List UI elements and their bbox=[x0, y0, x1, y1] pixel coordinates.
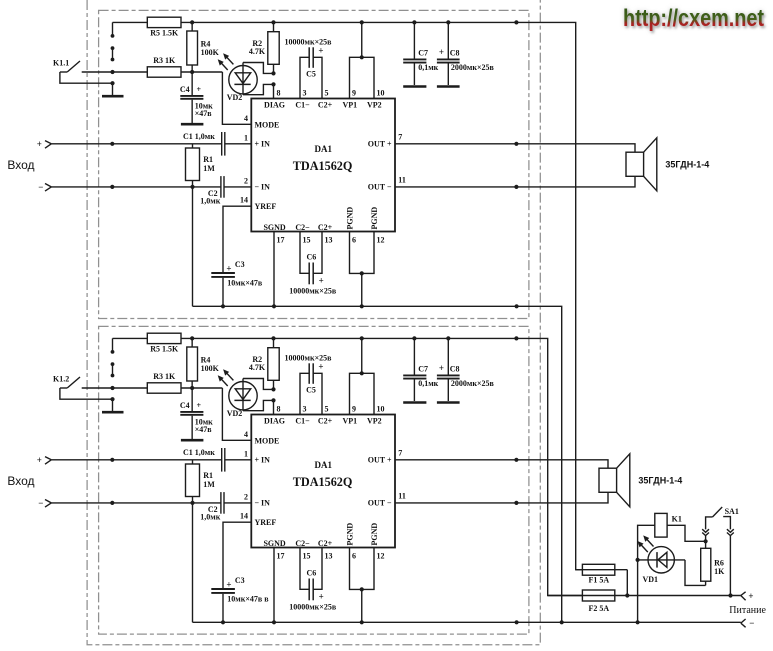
wire SGND pin 17 to ground rail channel 1 bbox=[273, 232, 275, 307]
svg-text:+: + bbox=[748, 591, 753, 601]
svg-text:R3 1K: R3 1K bbox=[153, 372, 176, 381]
svg-text:2000мк×25в: 2000мк×25в bbox=[451, 379, 495, 388]
channel 1 dashed boundary bbox=[99, 10, 529, 318]
relay contact K1.1 channel 1 bbox=[53, 58, 147, 74]
resistor R1 1M channel 2 bbox=[186, 460, 216, 505]
ground for C7 channel 2 bbox=[403, 401, 426, 404]
pin 1 +IN label channel 1 bbox=[244, 133, 270, 148]
pin 2 −IN label channel 2 bbox=[244, 492, 270, 507]
svg-text:17: 17 bbox=[277, 552, 285, 561]
svg-text:1,0мк: 1,0мк bbox=[200, 196, 220, 205]
pin 7 OUT+ label channel 1 bbox=[368, 132, 403, 148]
svg-text:F2 5A: F2 5A bbox=[588, 604, 609, 613]
wire +V top rail channel 2 bbox=[113, 338, 583, 595]
wire +input to C1 channel 2 bbox=[51, 458, 221, 462]
site logo http://cxem.net bbox=[623, 5, 766, 34]
wire bottom ground rail channel 2 bbox=[193, 620, 741, 624]
fuse F2 5A bbox=[548, 590, 741, 613]
svg-text:+: + bbox=[319, 275, 324, 285]
svg-text:R1: R1 bbox=[203, 155, 213, 164]
resistor R3 1K channel 2 bbox=[147, 372, 222, 393]
switch SA1 with connectors bbox=[702, 507, 739, 596]
svg-text:2000мк×25в: 2000мк×25в bbox=[451, 63, 495, 72]
svg-text:http://cxem.net: http://cxem.net bbox=[623, 5, 764, 32]
svg-text:Питание: Питание bbox=[729, 605, 766, 616]
svg-text:+ IN: + IN bbox=[255, 456, 271, 465]
svg-text:10мк×47в: 10мк×47в bbox=[227, 279, 263, 288]
svg-text:DIAG: DIAG bbox=[264, 100, 285, 109]
capacitor C4 10uF channel 1 bbox=[180, 72, 213, 123]
svg-text:+: + bbox=[439, 363, 444, 373]
svg-text:+: + bbox=[318, 362, 323, 372]
svg-text:9: 9 bbox=[352, 405, 356, 414]
svg-text:DIAG: DIAG bbox=[264, 416, 285, 425]
svg-text:6: 6 bbox=[352, 236, 356, 245]
svg-text:C2+: C2+ bbox=[318, 100, 333, 109]
svg-text:1: 1 bbox=[244, 449, 248, 458]
svg-text:−: − bbox=[749, 618, 754, 628]
capacitor C6 10000uF pins 15 13 channel 1 bbox=[289, 232, 337, 296]
svg-text:− IN: − IN bbox=[255, 499, 271, 508]
capacitor C7 0.1uF channel 2 bbox=[403, 336, 438, 401]
svg-text:100K: 100K bbox=[201, 364, 220, 373]
svg-text:VP1: VP1 bbox=[342, 100, 357, 109]
svg-text:×47в: ×47в bbox=[195, 109, 213, 118]
power + terminal bbox=[741, 591, 754, 601]
svg-text:C1 1,0мк: C1 1,0мк bbox=[183, 448, 215, 457]
svg-text:10000мк×25в: 10000мк×25в bbox=[285, 37, 333, 46]
capacitor C4 10uF channel 2 bbox=[180, 388, 213, 439]
LED VD2 emission arrows channel 1 bbox=[218, 54, 233, 70]
resistor R2 4.7K channel 1 bbox=[249, 20, 279, 75]
svg-text:C1−: C1− bbox=[295, 416, 310, 425]
svg-text:C4: C4 bbox=[180, 401, 190, 410]
wire OUT− pin 11 to speaker channel 2 bbox=[395, 492, 608, 505]
bottom pin numbers 17 15 13 6 12 channel 2 bbox=[277, 552, 385, 561]
svg-text:+: + bbox=[197, 85, 202, 94]
pin 4 MODE label channel 1 bbox=[244, 114, 279, 130]
svg-text:+: + bbox=[226, 264, 231, 274]
resistor R4 100K channel 1 bbox=[187, 20, 220, 72]
svg-text:K1: K1 bbox=[672, 515, 682, 524]
svg-text:11: 11 bbox=[398, 176, 406, 185]
node module terminal on +V rail channel 2 bbox=[514, 336, 518, 340]
svg-text:C3: C3 bbox=[235, 260, 245, 269]
resistor R1 1M channel 1 bbox=[186, 144, 216, 189]
op-amp DA1 TDA1562Q channel 2 bbox=[251, 415, 395, 548]
LED VD1 emission arrows bbox=[638, 536, 654, 552]
svg-text:13: 13 bbox=[325, 552, 333, 561]
svg-text:C2−: C2− bbox=[295, 223, 310, 232]
svg-text:−: − bbox=[38, 498, 43, 508]
svg-text:C8: C8 bbox=[450, 364, 460, 373]
ground for C4 channel 2 bbox=[181, 439, 204, 442]
svg-text:VP1: VP1 bbox=[342, 416, 357, 425]
svg-text:MODE: MODE bbox=[255, 437, 280, 446]
LED VD1 bbox=[636, 547, 686, 584]
wire to MODE pin 4 channel 2 bbox=[222, 388, 251, 440]
svg-text:TDA1562Q: TDA1562Q bbox=[293, 159, 353, 173]
svg-text:OUT +: OUT + bbox=[368, 140, 392, 149]
outer dashed module boundary bbox=[87, 0, 540, 645]
wire PGND pins 6 12 to ground rail channel 2 bbox=[350, 548, 375, 623]
svg-text:PGND: PGND bbox=[370, 207, 379, 230]
svg-text:F1 5A: F1 5A bbox=[588, 576, 609, 585]
svg-text:+: + bbox=[226, 580, 231, 590]
capacitor C3 10uF channel 1 bbox=[211, 260, 263, 306]
wire VD2 anode to R2 channel 2 bbox=[243, 379, 274, 390]
ground for C4 channel 1 bbox=[181, 123, 204, 126]
wire SGND pin 17 to ground rail channel 2 bbox=[273, 548, 275, 623]
resistor R5 1.5K channel 2 bbox=[147, 333, 181, 353]
wire VP1 VP2 pins 9 10 to rail channel 2 bbox=[350, 336, 375, 414]
svg-text:10000мк×25в: 10000мк×25в bbox=[289, 602, 337, 611]
relay coil K1 bbox=[636, 513, 706, 624]
svg-text:100K: 100K bbox=[201, 48, 220, 57]
svg-text:R5 1.5K: R5 1.5K bbox=[150, 29, 179, 38]
wire OUT+ pin 7 to speaker channel 2 bbox=[395, 458, 608, 469]
capacitor C2 1.0uF channel 2 bbox=[200, 492, 251, 521]
relay contact K1.2 channel 2 bbox=[53, 374, 147, 390]
svg-text:C6: C6 bbox=[307, 569, 317, 578]
svg-text:12: 12 bbox=[377, 552, 385, 561]
resistor R5 1.5K channel 1 bbox=[147, 17, 181, 37]
svg-text:+: + bbox=[319, 591, 324, 601]
svg-text:C2+: C2+ bbox=[318, 223, 333, 232]
svg-text:−: − bbox=[38, 182, 43, 192]
svg-text:35ГДН-1-4: 35ГДН-1-4 bbox=[665, 159, 709, 169]
svg-text:14: 14 bbox=[240, 512, 248, 521]
svg-text:10мк×47в в: 10мк×47в в bbox=[227, 595, 269, 604]
wire R1 bottom to ground rail channel 1 bbox=[192, 187, 194, 306]
label Питание bbox=[729, 605, 766, 616]
svg-text:×47в: ×47в bbox=[195, 425, 213, 434]
speaker 35ГДН-1-4 channel 1 bbox=[626, 138, 709, 191]
svg-text:0,1мк: 0,1мк bbox=[418, 63, 438, 72]
svg-text:0,1мк: 0,1мк bbox=[418, 379, 438, 388]
wire VD2 cathode to DIAG pin 8 channel 2 bbox=[243, 398, 276, 414]
svg-text:6: 6 bbox=[352, 552, 356, 561]
pin 1 +IN label channel 2 bbox=[244, 449, 270, 464]
input + terminal arrow channel 2 bbox=[37, 455, 52, 465]
pin 7 OUT+ label channel 2 bbox=[368, 448, 403, 464]
svg-text:K1.1: K1.1 bbox=[53, 58, 69, 67]
input − terminal arrow channel 1 bbox=[38, 182, 51, 192]
top pin numbers 8 3 5 9 10 channel 2 bbox=[277, 405, 385, 414]
svg-text:14: 14 bbox=[240, 196, 248, 205]
svg-text:C7: C7 bbox=[418, 48, 428, 57]
svg-text:Вход: Вход bbox=[7, 158, 34, 172]
svg-text:K1.2: K1.2 bbox=[53, 374, 69, 383]
svg-text:VD2: VD2 bbox=[227, 93, 243, 102]
ground for K1.1 channel 1 bbox=[60, 72, 124, 96]
pin 14 YREF label channel 2 bbox=[240, 512, 276, 528]
svg-text:+: + bbox=[37, 139, 42, 149]
svg-text:R1: R1 bbox=[203, 471, 213, 480]
svg-text:OUT −: OUT − bbox=[368, 499, 392, 508]
svg-text:+: + bbox=[197, 401, 202, 410]
svg-text:4.7K: 4.7K bbox=[249, 363, 266, 372]
pin 11 OUT− label channel 1 bbox=[368, 176, 406, 192]
node +supply junction SA1 bbox=[728, 593, 732, 597]
svg-text:7: 7 bbox=[398, 448, 402, 457]
svg-text:10: 10 bbox=[377, 89, 385, 98]
wire VD1 cathode to R6 bbox=[685, 560, 706, 586]
input − terminal arrow channel 2 bbox=[38, 498, 51, 508]
LED VD2 channel 2 bbox=[227, 379, 257, 419]
wire −input to C2 channel 2 bbox=[51, 501, 220, 505]
svg-text:SA1: SA1 bbox=[725, 507, 739, 516]
svg-text:C6: C6 bbox=[307, 253, 317, 262]
wire R1 bottom to ground rail channel 2 bbox=[192, 503, 194, 622]
svg-text:5: 5 bbox=[325, 405, 329, 414]
svg-text:1M: 1M bbox=[203, 164, 215, 173]
wire PGND pins 6 12 to ground rail channel 1 bbox=[350, 232, 375, 307]
top pin labels DIAG C1− C2+ VP1 VP2 channel 1 bbox=[264, 100, 382, 109]
svg-text:2: 2 bbox=[244, 176, 248, 185]
ground for C8 channel 2 bbox=[437, 401, 460, 404]
top pin numbers 8 3 5 9 10 channel 1 bbox=[277, 89, 385, 98]
svg-text:SGND: SGND bbox=[263, 539, 285, 548]
wire YREF pin 14 to C3 channel 2 bbox=[223, 522, 251, 588]
resistor R3 1K channel 1 bbox=[147, 56, 222, 77]
svg-text:DA1: DA1 bbox=[315, 460, 333, 470]
svg-text:TDA1562Q: TDA1562Q bbox=[293, 475, 353, 489]
svg-text:R3 1K: R3 1K bbox=[153, 56, 176, 65]
svg-text:VD2: VD2 bbox=[227, 409, 243, 418]
capacitor C6 10000uF pins 15 13 channel 2 bbox=[289, 548, 337, 612]
wire to MODE pin 4 channel 1 bbox=[222, 72, 251, 124]
capacitor C8 2000uF channel 1 bbox=[437, 20, 495, 85]
wire +input to C1 channel 1 bbox=[51, 142, 221, 146]
svg-text:C8: C8 bbox=[450, 48, 460, 57]
svg-text:4: 4 bbox=[244, 114, 248, 123]
svg-text:5: 5 bbox=[325, 89, 329, 98]
bottom pin labels SGND C2− C2+ PGND PGND channel 1 bbox=[263, 207, 379, 232]
ground for C7 channel 1 bbox=[403, 85, 426, 88]
capacitor C1 1.0uF channel 2 bbox=[183, 448, 251, 472]
resistor R2 4.7K channel 2 bbox=[249, 336, 279, 391]
svg-text:35ГДН-1-4: 35ГДН-1-4 bbox=[638, 475, 682, 485]
svg-text:15: 15 bbox=[303, 552, 311, 561]
speaker 35ГДН-1-4 channel 2 bbox=[599, 454, 682, 507]
svg-text:C2−: C2− bbox=[295, 539, 310, 548]
svg-text:10000мк×25в: 10000мк×25в bbox=[289, 286, 337, 295]
resistor R4 100K channel 2 bbox=[187, 336, 220, 388]
svg-text:9: 9 bbox=[352, 89, 356, 98]
pin 14 YREF label channel 1 bbox=[240, 196, 276, 212]
wire R5 left drop with relay linkage dots channel 1 bbox=[111, 22, 115, 61]
svg-text:VP2: VP2 bbox=[367, 416, 382, 425]
node module terminal on +V rail channel 1 bbox=[514, 20, 518, 24]
input label Вход channel 2 bbox=[7, 474, 34, 488]
capacitor C5 10000uF pins 3 5 channel 2 bbox=[285, 353, 333, 414]
wire bottom ground rail channel 1 bbox=[193, 304, 562, 622]
resistor R6 1K bbox=[701, 541, 725, 585]
svg-text:8: 8 bbox=[277, 405, 281, 414]
svg-text:1M: 1M bbox=[203, 480, 215, 489]
svg-text:C2+: C2+ bbox=[318, 539, 333, 548]
capacitor C1 1.0uF channel 1 bbox=[183, 132, 251, 156]
svg-text:C5: C5 bbox=[306, 70, 316, 79]
svg-text:+ IN: + IN bbox=[255, 140, 271, 149]
svg-text:8: 8 bbox=[277, 89, 281, 98]
svg-text:1: 1 bbox=[244, 133, 248, 142]
bottom pin numbers 17 15 13 6 12 channel 1 bbox=[277, 236, 385, 245]
input + terminal arrow channel 1 bbox=[37, 139, 52, 149]
svg-text:VP2: VP2 bbox=[367, 100, 382, 109]
svg-text:+: + bbox=[439, 47, 444, 57]
svg-text:DA1: DA1 bbox=[315, 144, 333, 154]
capacitor C3 10uF channel 2 bbox=[211, 576, 269, 622]
svg-text:Вход: Вход bbox=[7, 474, 34, 488]
svg-text:C2+: C2+ bbox=[318, 416, 333, 425]
capacitor C8 2000uF channel 2 bbox=[437, 336, 495, 401]
wire OUT+ pin 7 to speaker channel 1 bbox=[395, 142, 635, 153]
ground for K1.2 channel 2 bbox=[60, 388, 124, 412]
wire VP1 VP2 pins 9 10 to rail channel 1 bbox=[350, 20, 375, 98]
LED VD2 emission arrows channel 2 bbox=[218, 370, 233, 386]
capacitor C2 1.0uF channel 1 bbox=[200, 176, 251, 205]
svg-text:13: 13 bbox=[325, 236, 333, 245]
svg-text:1K: 1K bbox=[714, 567, 725, 576]
svg-text:C7: C7 bbox=[418, 364, 428, 373]
capacitor C5 10000uF pins 3 5 channel 1 bbox=[285, 37, 333, 98]
wire F1 output to +supply bbox=[625, 570, 629, 598]
input label Вход channel 1 bbox=[7, 158, 34, 172]
wire VD2 cathode to DIAG pin 8 channel 1 bbox=[243, 82, 276, 98]
svg-text:OUT −: OUT − bbox=[368, 183, 392, 192]
svg-text:3: 3 bbox=[303, 405, 307, 414]
wire R5 left drop with relay linkage dots channel 2 bbox=[111, 338, 115, 377]
svg-text:VD1: VD1 bbox=[643, 575, 659, 584]
svg-text:10: 10 bbox=[377, 405, 385, 414]
svg-text:+: + bbox=[318, 46, 323, 56]
wire −input to C2 channel 1 bbox=[51, 185, 220, 189]
svg-text:C1 1,0мк: C1 1,0мк bbox=[183, 132, 215, 141]
svg-text:7: 7 bbox=[398, 132, 402, 141]
wire VD2 anode to R2 channel 1 bbox=[243, 63, 274, 74]
svg-text:4: 4 bbox=[244, 430, 248, 439]
svg-text:YREF: YREF bbox=[255, 518, 277, 527]
wire OUT− pin 11 to speaker channel 1 bbox=[395, 176, 635, 189]
svg-text:YREF: YREF bbox=[255, 202, 277, 211]
svg-text:PGND: PGND bbox=[370, 523, 379, 546]
pin 11 OUT− label channel 2 bbox=[368, 492, 406, 508]
svg-text:12: 12 bbox=[377, 236, 385, 245]
bottom pin labels SGND C2− C2+ PGND PGND channel 2 bbox=[263, 523, 379, 548]
op-amp DA1 TDA1562Q channel 1 bbox=[251, 99, 395, 232]
svg-text:3: 3 bbox=[303, 89, 307, 98]
svg-text:C4: C4 bbox=[180, 85, 190, 94]
svg-text:10000мк×25в: 10000мк×25в bbox=[285, 353, 333, 362]
pin 2 −IN label channel 1 bbox=[244, 176, 270, 191]
wire +V top rail channel 1 bbox=[113, 22, 583, 569]
svg-text:C3: C3 bbox=[235, 576, 245, 585]
pin 4 MODE label channel 2 bbox=[244, 430, 279, 446]
svg-text:1,0мк: 1,0мк bbox=[200, 512, 220, 521]
wire YREF pin 14 to C3 channel 1 bbox=[223, 206, 251, 272]
svg-text:− IN: − IN bbox=[255, 183, 271, 192]
svg-text:4.7K: 4.7K bbox=[249, 47, 266, 56]
ground for C8 channel 1 bbox=[437, 85, 460, 88]
svg-text:PGND: PGND bbox=[346, 523, 355, 546]
svg-text:PGND: PGND bbox=[346, 207, 355, 230]
svg-text:+: + bbox=[37, 455, 42, 465]
svg-text:SGND: SGND bbox=[263, 223, 285, 232]
top pin labels DIAG C1− C2+ VP1 VP2 channel 2 bbox=[264, 416, 382, 425]
svg-text:11: 11 bbox=[398, 492, 406, 501]
svg-text:MODE: MODE bbox=[255, 121, 280, 130]
LED VD2 channel 1 bbox=[227, 63, 257, 103]
capacitor C7 0.1uF channel 1 bbox=[403, 20, 438, 85]
svg-text:17: 17 bbox=[277, 236, 285, 245]
svg-text:R5 1.5K: R5 1.5K bbox=[150, 345, 179, 354]
fuse F1 5A bbox=[576, 564, 628, 584]
svg-text:C5: C5 bbox=[306, 386, 316, 395]
svg-text:2: 2 bbox=[244, 492, 248, 501]
svg-text:15: 15 bbox=[303, 236, 311, 245]
svg-text:C1−: C1− bbox=[295, 100, 310, 109]
channel 2 dashed boundary bbox=[99, 326, 529, 634]
svg-text:OUT +: OUT + bbox=[368, 456, 392, 465]
power − terminal bbox=[741, 618, 755, 628]
